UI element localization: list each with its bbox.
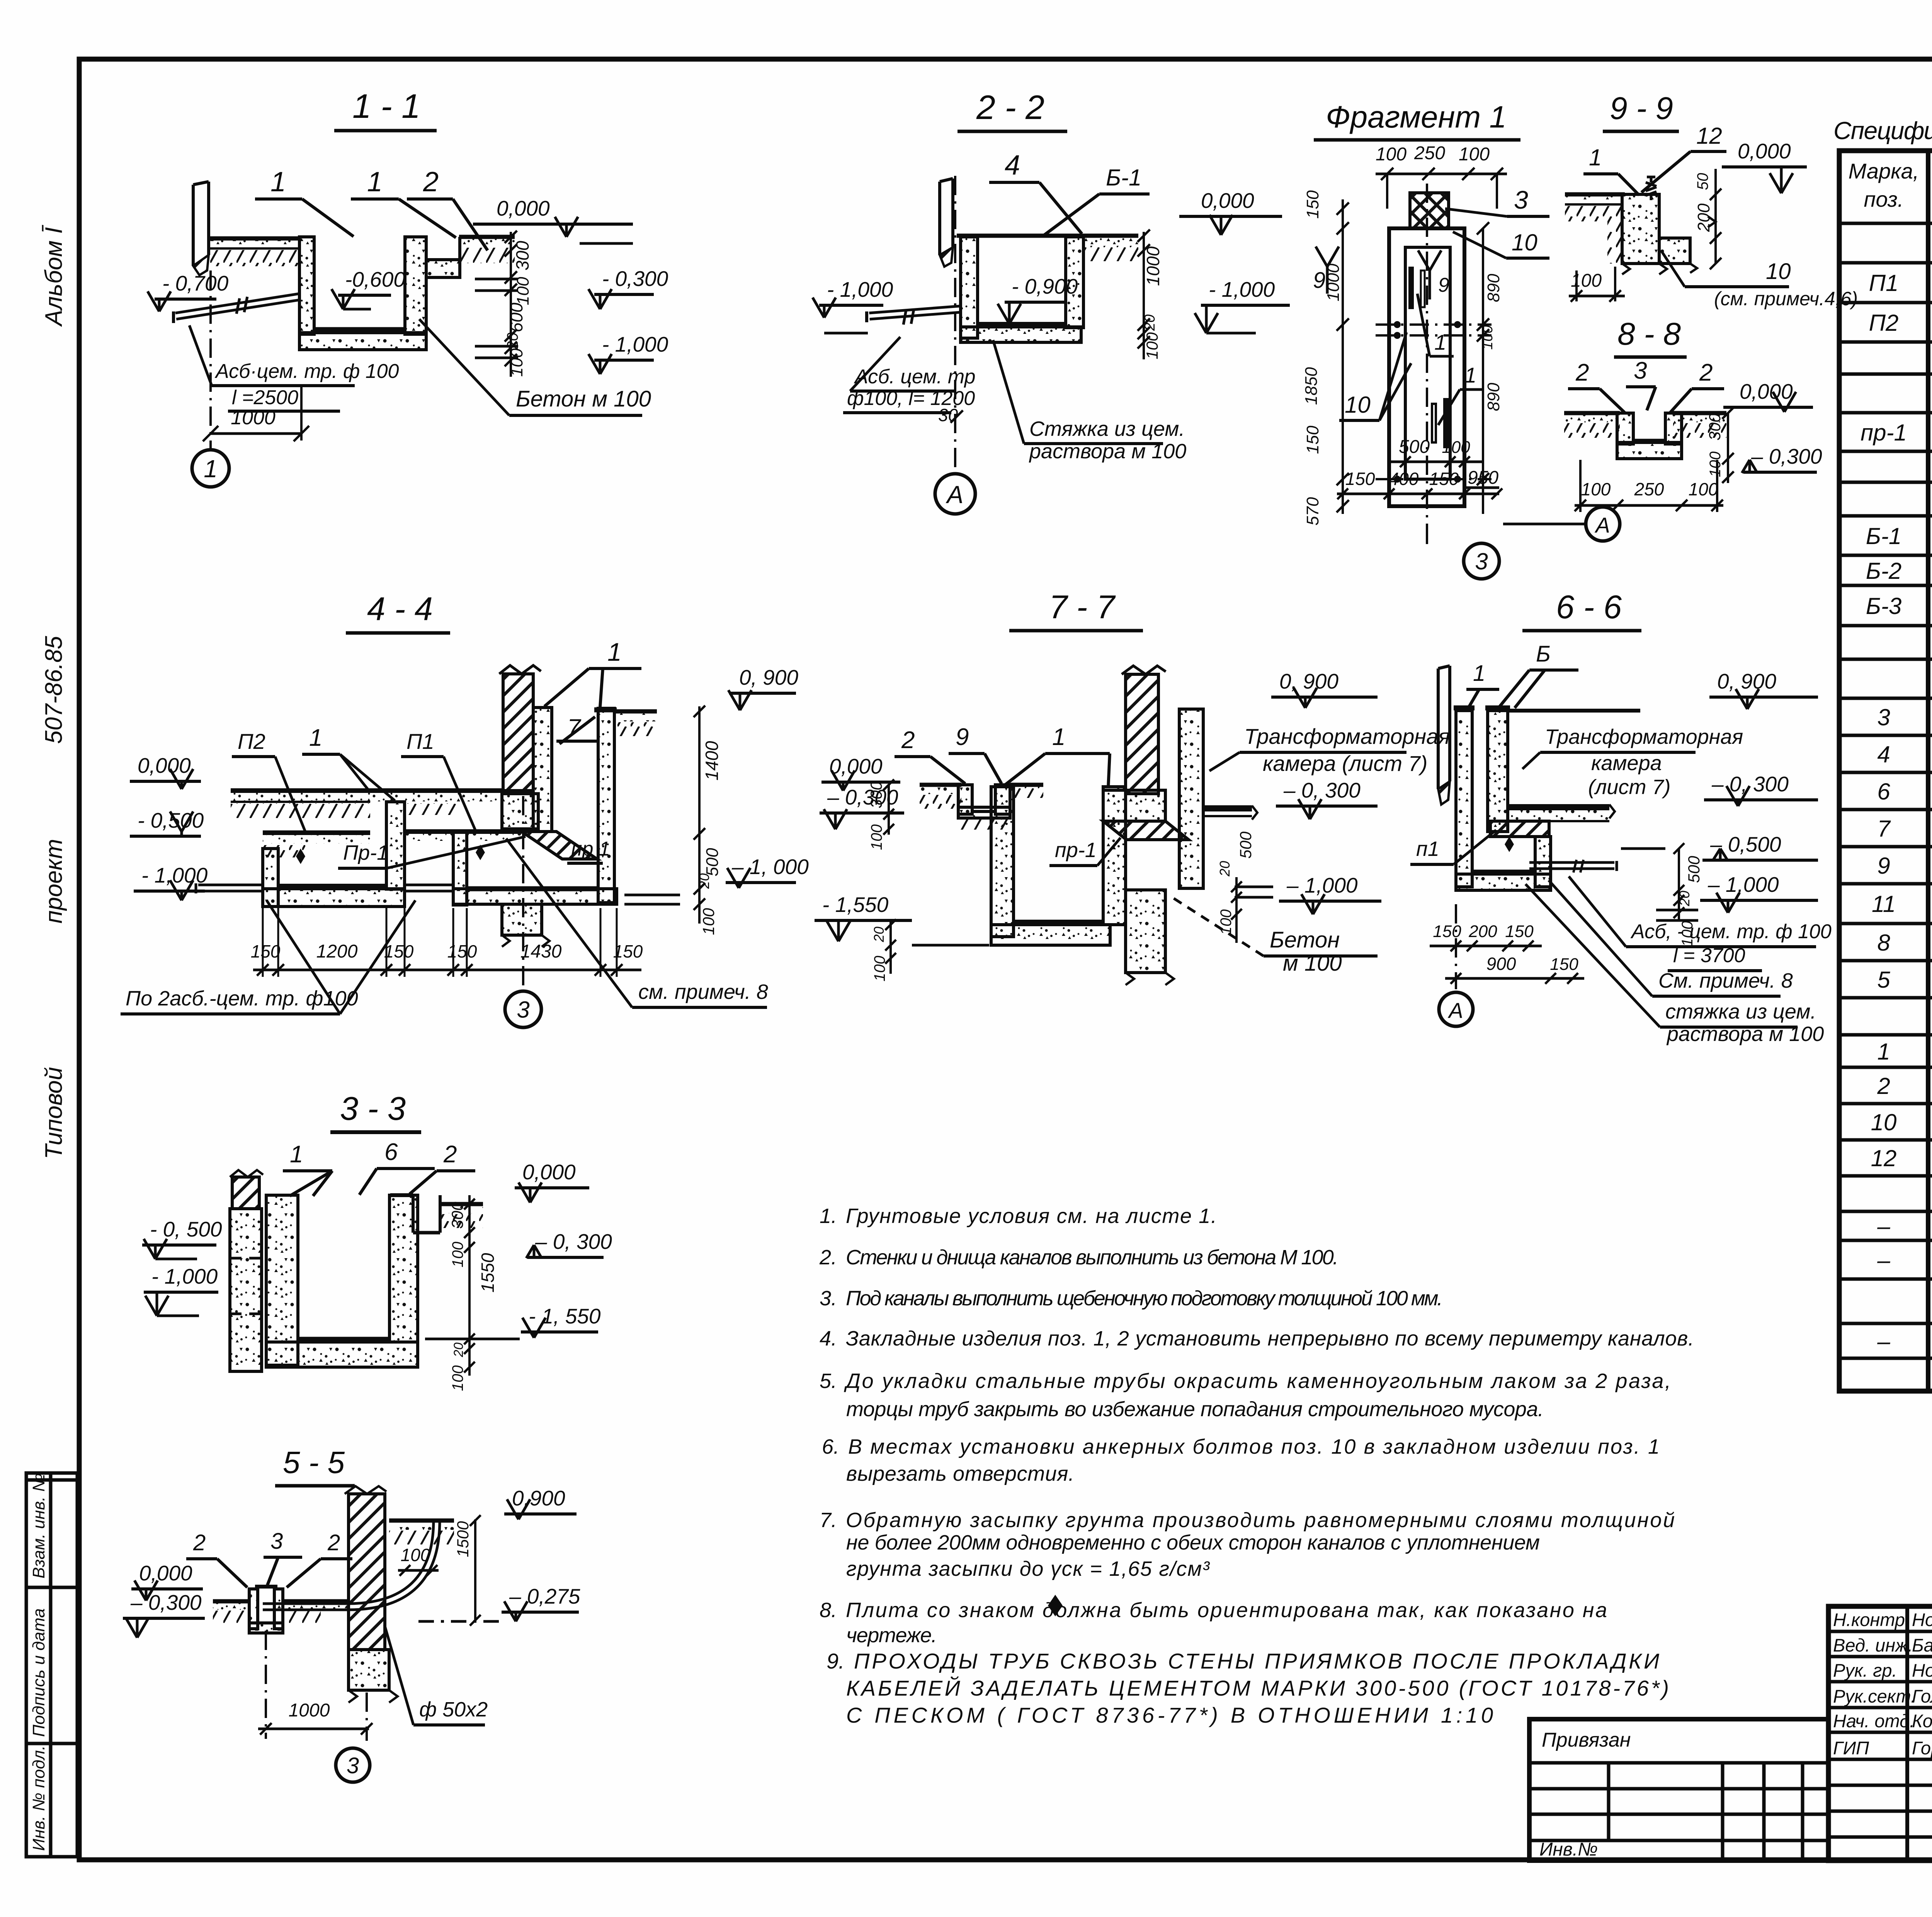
svg-text:Инв.№: Инв.№ <box>1539 1839 1598 1860</box>
inner bottom line <box>314 327 405 332</box>
svg-text:– 0,275: – 0,275 <box>509 1584 580 1608</box>
svg-text:не более 200мм одновременно: не более 200мм одновременно с обеих стор… <box>846 1531 1540 1554</box>
svg-text:12: 12 <box>1871 1145 1897 1171</box>
channel left wall 2-2 <box>961 237 978 338</box>
svg-text:1: 1 <box>1052 724 1065 750</box>
svg-text:20: 20 <box>696 873 712 889</box>
svg-text:(лист 7): (лист 7) <box>1588 776 1670 799</box>
svg-text:- 0,700: - 0,700 <box>162 271 229 295</box>
channel 8-8 <box>1617 413 1633 444</box>
chamber top line 6-6 <box>1508 709 1640 713</box>
axis circle 3 frag <box>1426 541 1428 544</box>
mid wall 4-4 <box>386 802 405 889</box>
svg-text:9 - 9: 9 - 9 <box>1610 91 1673 126</box>
svg-text:- 1,000: - 1,000 <box>1209 277 1275 301</box>
centerline axis A <box>954 176 956 475</box>
svg-text:2: 2 <box>193 1530 206 1555</box>
svg-text:Голад: Голад <box>1912 1686 1932 1706</box>
svg-text:См. примеч. 8: См. примеч. 8 <box>1658 969 1793 992</box>
pipe 6-6 <box>1529 867 1614 870</box>
priyamok 7-7 <box>958 785 972 814</box>
svg-text:4.: 4. <box>820 1327 837 1350</box>
ground mid 5-5 <box>282 1599 349 1604</box>
svg-text:0, 900: 0, 900 <box>1717 669 1776 693</box>
svg-text:Трансформаторная: Трансформаторная <box>1545 725 1743 748</box>
svg-text:3: 3 <box>1634 357 1647 384</box>
svg-text:5.: 5. <box>820 1369 837 1393</box>
outer plan rect <box>1389 228 1464 506</box>
svg-text:9: 9 <box>956 724 969 750</box>
svg-text:300: 300 <box>448 1201 466 1229</box>
svg-text:–: – <box>1877 1247 1890 1273</box>
svg-text:м 100: м 100 <box>1283 951 1342 976</box>
svg-text:Спецификация к схеме располож: Спецификация к схеме расположения элемен… <box>1833 117 1932 145</box>
svg-text:С ПЕСКОМ ( ГОСТ 8736-77*): С ПЕСКОМ ( ГОСТ 8736-77*) В ОТНОШЕНИИ 1:… <box>846 1703 1495 1727</box>
svg-text:По 2асб.-цем. тр. ф100: По 2асб.-цем. тр. ф100 <box>126 987 358 1010</box>
svg-text:3: 3 <box>1514 185 1528 214</box>
left dim chain <box>1342 199 1344 514</box>
ground between 7-7 <box>1010 783 1043 787</box>
masonry column 4-4 <box>503 674 533 791</box>
channel bottom slab <box>299 333 426 350</box>
svg-text:А: А <box>946 481 964 509</box>
anchor bolt 9-9 <box>1646 177 1656 200</box>
svg-text:100: 100 <box>1707 451 1724 477</box>
column foundation 7-7 <box>1126 890 1165 973</box>
svg-text:10: 10 <box>1871 1109 1897 1135</box>
svg-text:7: 7 <box>1877 816 1891 842</box>
svg-text:вырезать отверстия.: вырезать отверстия. <box>846 1462 1074 1485</box>
svg-text:- 1,000: - 1,000 <box>151 1264 218 1288</box>
lower wall 6-6 <box>1535 837 1551 887</box>
right step block <box>426 260 460 277</box>
lintel pr1 4-4 <box>522 832 597 859</box>
svg-text:100: 100 <box>449 1365 466 1391</box>
svg-text:- 0,300: - 0,300 <box>602 267 668 291</box>
svg-text:чертеже.: чертеже. <box>846 1624 937 1647</box>
dims left bottom 7-7 <box>889 920 892 974</box>
svg-text:890: 890 <box>1484 383 1503 411</box>
svg-text:l = 3700: l = 3700 <box>1673 944 1745 967</box>
priyamok 5-5 <box>249 1589 258 1629</box>
svg-text:В местах установки анкерных: В местах установки анкерных болтов поз. … <box>848 1435 1660 1458</box>
channel left wall 3-3 <box>266 1195 298 1365</box>
svg-text:–: – <box>1877 1213 1890 1239</box>
svg-text:100: 100 <box>1581 479 1611 499</box>
svg-text:1850: 1850 <box>1302 367 1321 405</box>
upper ground right part 4-4 <box>370 788 503 793</box>
bottom slab 6-6 <box>1456 874 1551 890</box>
svg-text:Б-1: Б-1 <box>1866 523 1901 549</box>
svg-text:1430: 1430 <box>520 941 562 962</box>
svg-text:4 - 4: 4 - 4 <box>367 591 433 628</box>
right dim chain 4-4 <box>698 706 701 924</box>
svg-text:500: 500 <box>1685 856 1703 883</box>
svg-text:пр-1: пр-1 <box>1055 839 1097 862</box>
svg-text:Плита со знаком должна: Плита со знаком должна быть ориентирован… <box>846 1599 1607 1622</box>
svg-text:Фрагмент 1: Фрагмент 1 <box>1326 100 1507 134</box>
svg-text:Альбом Ī: Альбом Ī <box>41 225 67 327</box>
svg-text:1: 1 <box>1464 363 1476 387</box>
svg-text:Подпись и дата: Подпись и дата <box>29 1608 48 1737</box>
svg-text:3: 3 <box>517 997 529 1023</box>
svg-text:- 0,900: - 0,900 <box>1012 274 1078 298</box>
axis circle A 6-6 <box>1455 904 1457 989</box>
svg-text:2: 2 <box>423 167 439 197</box>
svg-text:6: 6 <box>1877 779 1890 805</box>
pipe 5-5 <box>263 1609 348 1611</box>
svg-text:100: 100 <box>1442 438 1470 457</box>
left sidebar stamp column <box>26 1473 77 1857</box>
svg-text:Н.контр.: Н.контр. <box>1833 1609 1910 1630</box>
neck with plate <box>1410 193 1449 228</box>
pipes 4-4 <box>198 890 263 893</box>
svg-text:9: 9 <box>1877 853 1890 879</box>
svg-text:КАБЕЛЕЙ ЗАДЕЛАТЬ ЦЕМЕНТОМ: КАБЕЛЕЙ ЗАДЕЛАТЬ ЦЕМЕНТОМ МАРКИ 300-500 … <box>846 1676 1671 1700</box>
svg-text:150: 150 <box>1505 922 1534 941</box>
axis circle A frag <box>1503 523 1586 526</box>
svg-text:300: 300 <box>512 241 532 270</box>
svg-text:100: 100 <box>449 1242 466 1267</box>
svg-text:9: 9 <box>1313 268 1325 293</box>
svg-text:грунта засыпки до γск = 1,: грунта засыпки до γск = 1,65 г/см³ <box>846 1557 1210 1580</box>
svg-text:20: 20 <box>504 333 521 350</box>
svg-text:– 1, 000: – 1, 000 <box>731 855 809 879</box>
svg-text:150: 150 <box>1303 190 1322 219</box>
svg-text:100: 100 <box>868 824 885 850</box>
dims right bottom 7-7 <box>1235 877 1238 943</box>
svg-text:камера (лист 7): камера (лист 7) <box>1263 751 1427 776</box>
svg-text:поз.: поз. <box>1864 187 1904 211</box>
right dim chain 3-3 <box>468 1195 471 1376</box>
svg-text:8.: 8. <box>820 1599 837 1622</box>
junction dots <box>1394 321 1401 328</box>
svg-text:1: 1 <box>270 167 286 197</box>
svg-text:9.: 9. <box>827 1649 845 1673</box>
channel bottom slab 2-2 <box>961 327 1081 342</box>
svg-text:150: 150 <box>384 941 414 961</box>
svg-text:Бетон: Бетон <box>1270 927 1340 953</box>
svg-text:1: 1 <box>309 725 322 751</box>
svg-text:Асб, - цем. тр. ф 100: Асб, - цем. тр. ф 100 <box>1630 920 1832 943</box>
svg-text:4: 4 <box>1877 742 1890 767</box>
channel left wall <box>299 237 314 334</box>
svg-text:100: 100 <box>1689 479 1718 499</box>
dim 300/100 8-8 <box>1727 413 1729 483</box>
svg-text:0,000: 0,000 <box>1201 189 1254 213</box>
svg-text:1000: 1000 <box>231 407 276 429</box>
break zigzag bottom <box>1622 264 1697 274</box>
ground left 9-9 <box>1565 192 1625 197</box>
axis circle A 2-2 <box>935 474 975 514</box>
svg-text:п1: п1 <box>1416 837 1439 861</box>
svg-text:- 1,000: - 1,000 <box>827 277 893 301</box>
svg-text:150: 150 <box>1433 922 1461 941</box>
svg-text:1: 1 <box>607 638 622 666</box>
svg-text:l =2500: l =2500 <box>232 386 298 409</box>
svg-text:А: А <box>1447 998 1463 1022</box>
horizontal dashdots <box>1376 323 1492 326</box>
svg-text:2: 2 <box>1877 1073 1890 1099</box>
svg-text:Коган: Коган <box>1912 1711 1932 1731</box>
step block 9-9 <box>1659 238 1690 264</box>
svg-text:Б-1: Б-1 <box>1106 165 1141 191</box>
chamber side wall 4-4 <box>533 708 552 832</box>
svg-text:– 0,300: – 0,300 <box>1751 444 1822 468</box>
svg-text:30: 30 <box>938 405 958 425</box>
column foundation below 4-4 <box>502 904 542 935</box>
svg-text:А: А <box>1594 513 1610 537</box>
svg-text:100: 100 <box>871 956 888 981</box>
svg-text:3 - 3: 3 - 3 <box>340 1090 406 1127</box>
ground left 5-5 <box>213 1599 250 1604</box>
svg-text:-0,600: -0,600 <box>345 267 405 291</box>
svg-text:Рук. гр.: Рук. гр. <box>1833 1660 1897 1681</box>
svg-text:1: 1 <box>1589 145 1602 170</box>
svg-text:- 1,000: - 1,000 <box>602 332 668 356</box>
svg-text:950: 950 <box>1468 468 1498 488</box>
right wall 4-4 <box>598 708 614 903</box>
svg-text:20: 20 <box>1677 891 1692 907</box>
svg-text:12: 12 <box>1696 123 1722 149</box>
svg-text:3: 3 <box>1877 704 1890 730</box>
svg-text:ГИП: ГИП <box>1833 1738 1869 1758</box>
main channel right wall 7-7 <box>1103 787 1126 925</box>
svg-text:Бетон м 100: Бетон м 100 <box>516 386 651 412</box>
svg-text:1000: 1000 <box>289 1700 330 1721</box>
svg-text:Вед. инж.: Вед. инж. <box>1833 1635 1913 1655</box>
svg-text:7.: 7. <box>820 1509 837 1532</box>
svg-text:1: 1 <box>367 167 383 197</box>
right ground 4-4 <box>614 709 657 714</box>
svg-text:2: 2 <box>901 727 915 754</box>
chamber floor 7-7 <box>1203 805 1252 811</box>
svg-text:1: 1 <box>1473 661 1485 686</box>
svg-text:150: 150 <box>1345 469 1375 489</box>
axis circle 3 5-5 <box>336 1748 370 1782</box>
svg-text:0,900: 0,900 <box>512 1486 565 1510</box>
svg-text:890: 890 <box>1484 274 1503 302</box>
svg-text:Б-3: Б-3 <box>1866 593 1901 619</box>
masonry wall top 3-3 <box>232 1177 259 1209</box>
svg-text:– 0, 300: – 0, 300 <box>1711 772 1789 796</box>
svg-text:0, 900: 0, 900 <box>739 665 798 689</box>
left wall 4-4 <box>263 849 278 907</box>
channel right wall <box>405 237 426 334</box>
plate P1 4-4 <box>405 829 522 834</box>
svg-text:- 1,550: - 1,550 <box>822 893 889 917</box>
svg-text:проект: проект <box>41 839 67 924</box>
channel right wall 2-2 <box>1066 237 1083 328</box>
main channel left wall 7-7 <box>991 787 1014 937</box>
svg-text:300: 300 <box>867 781 885 808</box>
svg-text:20: 20 <box>1142 315 1158 331</box>
ground right 2-2 <box>1083 234 1138 238</box>
block top right 7-7 <box>1103 790 1165 821</box>
svg-text:4: 4 <box>1005 150 1020 181</box>
ground right 8-8 <box>1673 411 1726 415</box>
ground right top 5-5 <box>389 1519 454 1523</box>
svg-text:200: 200 <box>1468 922 1497 941</box>
chamber floor 6-6 <box>1508 804 1609 810</box>
embedded slots <box>1408 267 1414 309</box>
chamber right wall 7-7 <box>1179 709 1203 888</box>
svg-text:1: 1 <box>204 455 218 483</box>
svg-text:Взам. инв. №: Взам. инв. № <box>29 1473 48 1579</box>
svg-text:стяжка из цем.: стяжка из цем. <box>1665 1000 1816 1023</box>
svg-text:– 1,000: – 1,000 <box>1286 873 1358 897</box>
privyazan mini table <box>1529 1719 1828 1861</box>
svg-text:ф 50х2: ф 50х2 <box>419 1698 488 1721</box>
svg-text:2: 2 <box>327 1530 340 1555</box>
inner rect <box>1405 247 1450 479</box>
svg-text:1: 1 <box>1877 1039 1890 1065</box>
right channel bottom 4-4 <box>453 889 617 904</box>
ground line left <box>208 236 301 241</box>
axis circle 1 <box>192 450 229 487</box>
svg-text:1.: 1. <box>820 1204 837 1228</box>
svg-text:– 0, 300: – 0, 300 <box>1283 778 1361 802</box>
svg-text:900: 900 <box>1486 954 1516 974</box>
ground right 3-3 <box>440 1202 483 1206</box>
svg-text:Обратную засыпку грунта пр: Обратную засыпку грунта производить равн… <box>846 1509 1675 1532</box>
svg-text:3: 3 <box>270 1529 283 1554</box>
svg-text:см. примеч. 8: см. примеч. 8 <box>638 980 768 1004</box>
svg-text:9: 9 <box>1438 274 1449 296</box>
svg-text:Инв. № подл.: Инв. № подл. <box>29 1745 48 1851</box>
svg-text:100: 100 <box>1376 144 1406 165</box>
svg-text:100: 100 <box>1480 325 1496 350</box>
svg-text:100: 100 <box>507 348 526 377</box>
left channel bottom 4-4 <box>263 889 405 907</box>
svg-text:250: 250 <box>1414 143 1445 163</box>
svg-text:Пр-1: Пр-1 <box>343 841 388 864</box>
svg-text:Ноговицына: Ноговицына <box>1912 1660 1932 1681</box>
svg-text:600: 600 <box>506 303 526 332</box>
lintel 6-6 <box>1490 821 1549 837</box>
inner bottom line 2-2 <box>978 322 1066 326</box>
svg-text:100: 100 <box>1143 332 1161 359</box>
channel bottom 3-3 <box>266 1342 418 1367</box>
svg-text:7 - 7: 7 - 7 <box>1049 589 1116 626</box>
svg-text:2: 2 <box>443 1141 457 1168</box>
svg-text:20: 20 <box>871 927 887 942</box>
svg-text:2 - 2: 2 - 2 <box>976 88 1044 126</box>
svg-text:0,000: 0,000 <box>829 754 883 778</box>
svg-text:11: 11 <box>1872 891 1896 917</box>
svg-text:500: 500 <box>703 848 722 876</box>
dim chain right 2-2 <box>1143 232 1145 359</box>
spec table grid <box>1839 151 1932 1391</box>
dim 50/200 9-9 <box>1714 169 1717 264</box>
svg-text:570: 570 <box>1303 497 1322 526</box>
svg-text:Грунтовые условия см. на лис: Грунтовые условия см. на листе 1. <box>846 1204 1217 1228</box>
svg-text:1: 1 <box>290 1141 303 1168</box>
svg-text:П1: П1 <box>406 729 434 754</box>
column foundation 5-5 <box>349 1650 389 1690</box>
masonry column 7-7 <box>1126 674 1158 794</box>
svg-text:300: 300 <box>1706 413 1724 441</box>
svg-text:6.: 6. <box>822 1435 839 1458</box>
svg-text:400: 400 <box>1389 469 1419 489</box>
svg-text:3: 3 <box>347 1753 359 1778</box>
svg-text:50: 50 <box>1694 173 1711 191</box>
svg-text:камера: камера <box>1591 752 1662 775</box>
svg-text:Трансформаторная: Трансформаторная <box>1244 724 1450 748</box>
svg-text:0,000: 0,000 <box>138 754 191 777</box>
svg-text:507-86.85: 507-86.85 <box>41 636 67 744</box>
svg-text:5 - 5: 5 - 5 <box>283 1445 345 1480</box>
svg-text:1 - 1: 1 - 1 <box>352 87 420 125</box>
svg-text:500: 500 <box>1236 831 1255 859</box>
svg-text:0,000: 0,000 <box>139 1561 192 1585</box>
svg-text:–: – <box>1877 1328 1890 1354</box>
svg-text:3.: 3. <box>820 1287 837 1310</box>
svg-text:Б-2: Б-2 <box>1866 558 1901 584</box>
svg-text:- 1,000: - 1,000 <box>141 863 208 887</box>
svg-text:2.: 2. <box>819 1246 837 1269</box>
svg-text:Асб·цем. тр. ф 100: Асб·цем. тр. ф 100 <box>214 360 399 383</box>
axis circle 3 4-4 <box>522 796 524 989</box>
svg-text:250: 250 <box>1634 479 1664 499</box>
svg-text:Под каналы выполнить щебено: Под каналы выполнить щебеночную подготов… <box>846 1287 1443 1310</box>
svg-text:Баранова: Баранова <box>1912 1635 1932 1655</box>
svg-text:0,000: 0,000 <box>522 1160 576 1184</box>
svg-text:- 0, 500: - 0, 500 <box>150 1217 222 1241</box>
plate P2 4-4 <box>263 830 370 835</box>
svg-text:Ноговицына: Ноговицына <box>1912 1609 1932 1630</box>
masonry column 5-5 <box>349 1494 385 1650</box>
pipe 2-2 <box>870 312 961 319</box>
right dim chain <box>1482 228 1484 514</box>
svg-text:0, 900: 0, 900 <box>1279 669 1338 693</box>
svg-text:6: 6 <box>384 1139 398 1165</box>
main channel bottom 7-7 <box>991 925 1110 945</box>
svg-text:150: 150 <box>447 941 477 961</box>
svg-text:2: 2 <box>1575 359 1589 386</box>
svg-text:100: 100 <box>1218 909 1235 935</box>
svg-text:1500: 1500 <box>454 1521 472 1557</box>
svg-text:6 - 6: 6 - 6 <box>1556 589 1622 626</box>
svg-text:10: 10 <box>1512 230 1537 255</box>
top notch right 3-3 <box>412 1195 415 1233</box>
center dashdot <box>1426 184 1428 541</box>
svg-text:8 - 8: 8 - 8 <box>1617 316 1681 352</box>
svg-text:1550: 1550 <box>478 1253 498 1293</box>
concrete wall left 3-3 <box>230 1209 262 1371</box>
svg-text:100: 100 <box>1459 144 1490 165</box>
dims left 7-7 <box>888 785 890 835</box>
svg-text:100: 100 <box>699 908 718 935</box>
svg-text:20: 20 <box>451 1342 466 1357</box>
svg-text:500: 500 <box>1399 437 1430 457</box>
svg-text:Стяжка из цем.: Стяжка из цем. <box>1029 417 1185 441</box>
left wall 6-6 <box>1456 711 1472 887</box>
svg-text:8: 8 <box>1877 930 1890 956</box>
column foot block 4-4 <box>502 794 538 829</box>
svg-text:Марка,: Марка, <box>1849 159 1919 183</box>
inclined asbestos pipe <box>176 300 300 319</box>
right channel left wall 4-4 <box>453 832 467 905</box>
svg-text:торцы труб закрыть во избе: торцы труб закрыть во избежание попадани… <box>846 1398 1544 1421</box>
ground line right <box>459 235 515 239</box>
svg-text:Типовой: Типовой <box>41 1067 67 1159</box>
svg-text:Привязан: Привязан <box>1542 1729 1631 1751</box>
vertical dim chain <box>510 232 512 377</box>
ground left 7-7 <box>920 783 961 787</box>
left standing panel <box>192 185 195 266</box>
upper ground 4-4 <box>231 788 370 793</box>
